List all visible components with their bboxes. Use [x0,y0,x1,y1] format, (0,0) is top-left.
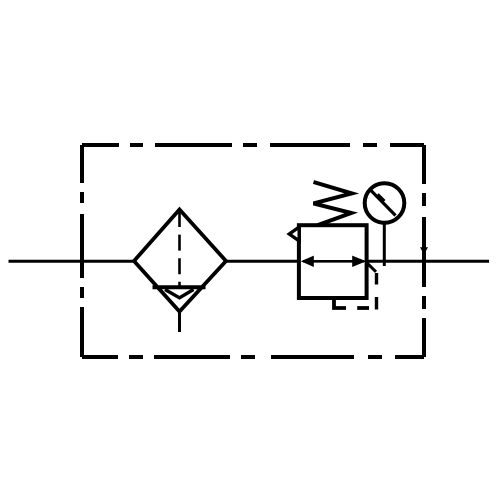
regulator vent stub (L below body) [334,298,346,309]
filter centerline (dashed) [178,211,181,287]
filter drain stub [178,312,181,333]
gauge stem [383,225,386,267]
gauge needle [371,191,396,216]
regulator adjustment spring [314,182,352,225]
pilot line: junction drop from outlet [368,264,377,272]
pilot line: dashed vertical [375,273,378,310]
pressure gauge body [365,183,405,223]
filter water-trap chevron [165,290,194,298]
regulator right arrowhead [352,256,366,267]
filter body (diamond) [134,210,226,312]
flow arrow on right boundary [420,247,428,254]
regulator flow line [303,260,364,263]
regulator left arrowhead [301,256,314,267]
main line: filter to regulator segment [226,260,300,263]
assembly enclosure boundary (dash-dot box) [82,145,424,357]
regulator relief triangle [289,227,299,241]
main line: inlet segment [9,260,136,263]
pilot line: dashed horizontal [357,306,369,310]
regulator body (square) [299,225,367,298]
gauge needle hub (thick middle) [375,193,385,203]
main line: outlet segment [366,260,489,263]
filter separator bar [153,285,206,289]
